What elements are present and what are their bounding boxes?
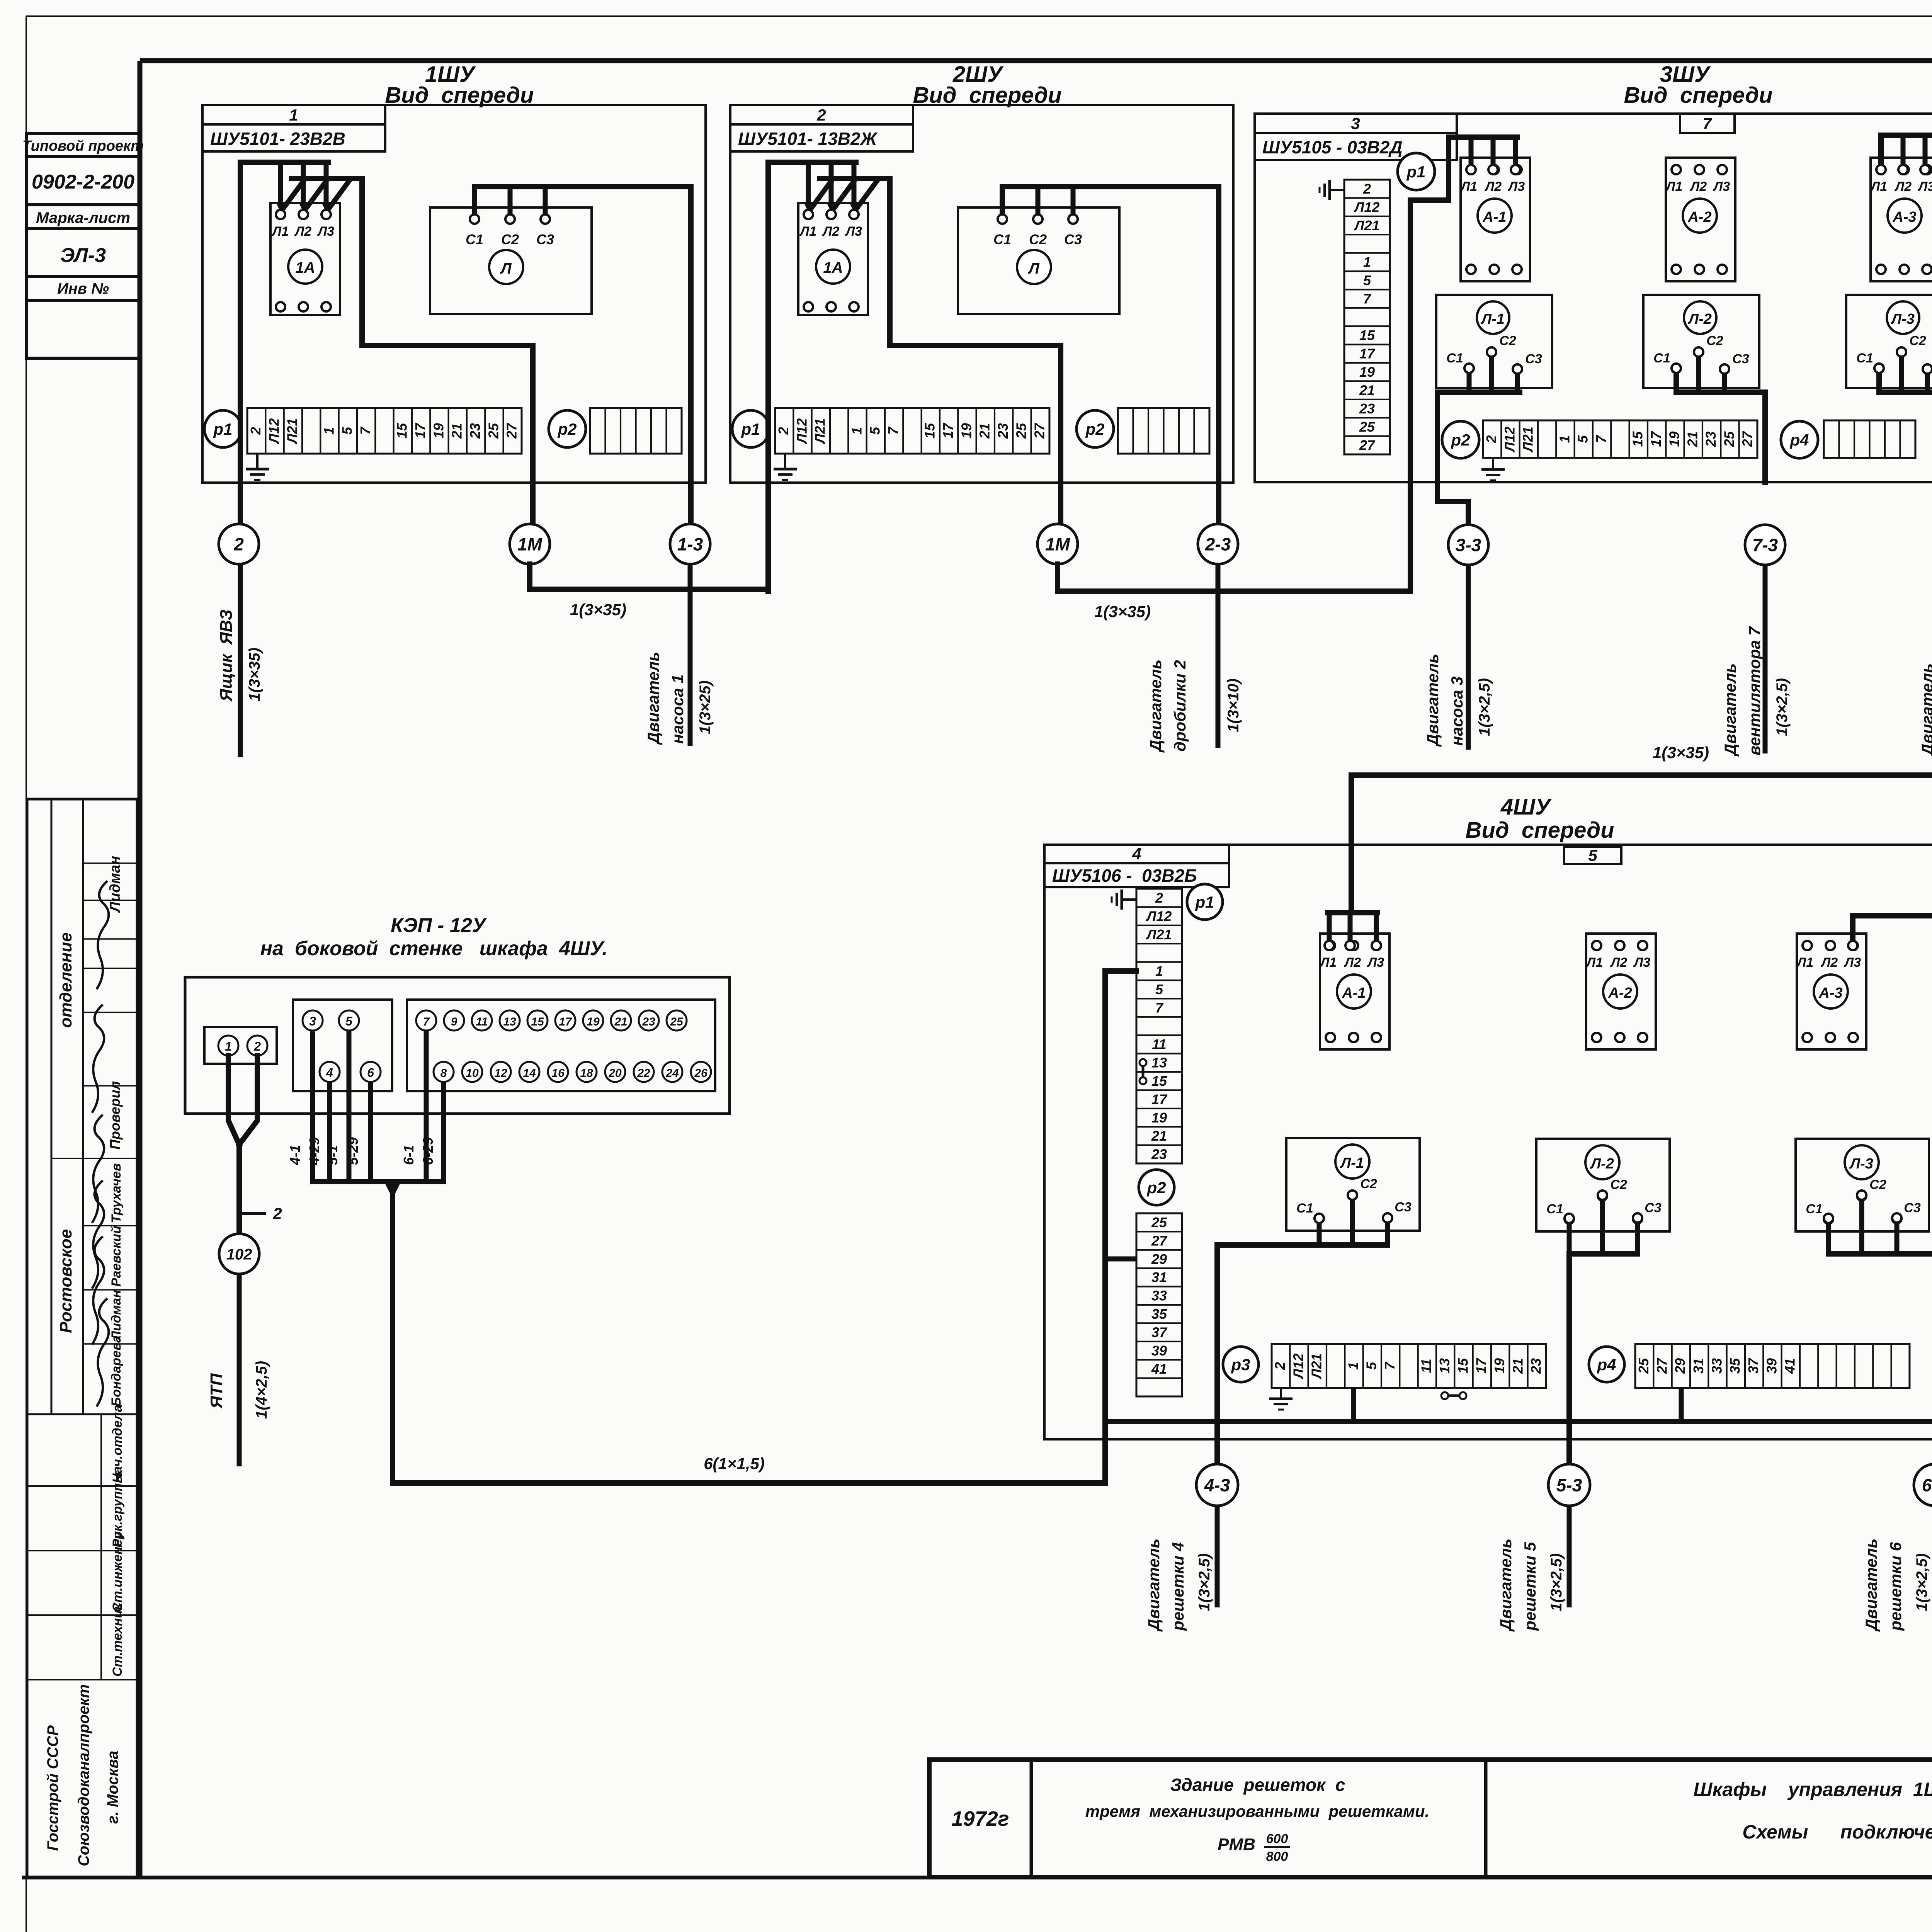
svg-text:25: 25 [485,423,501,439]
svg-text:р1: р1 [213,420,232,438]
svg-text:С2: С2 [501,231,519,247]
svg-text:С2: С2 [1360,1177,1377,1191]
wire 6(1х1,5) run to 4ШУ [384,1182,1105,1483]
svg-text:р1: р1 [1406,163,1425,181]
svg-text:15: 15 [1359,327,1375,343]
svg-text:12: 12 [494,1067,507,1080]
cabinet 2 label box [730,105,913,151]
svg-text:1: 1 [289,106,298,124]
svg-text:4-1: 4-1 [287,1145,303,1165]
svg-text:1А: 1А [823,259,843,276]
svg-text:С3: С3 [1395,1200,1412,1214]
svg-text:С3: С3 [536,231,554,247]
label Двигатель вентилятора 7 [1721,626,1764,757]
svg-text:решетки 6: решетки 6 [1886,1542,1905,1631]
svg-text:5: 5 [345,1014,353,1028]
svg-text:Л12: Л12 [1290,1354,1306,1380]
svg-text:4: 4 [1132,845,1141,863]
connection circle 1М of 1ШУ [510,524,550,564]
ground strip р1 4ШУ [1122,898,1136,901]
strip р1 4ШУ [1136,889,1182,1163]
contactor А-2 4ШУ [1586,934,1656,1049]
svg-text:Л-2: Л-2 [1687,311,1712,327]
svg-text:31: 31 [1690,1358,1706,1374]
svg-text:Вид спереди: Вид спереди [1465,818,1614,843]
svg-text:1: 1 [1363,254,1371,270]
svg-text:Нач.отдела: Нач.отдела [110,1405,125,1483]
circle р4 3ШУ [1781,421,1818,458]
cabinet 2ШУ outline [730,105,1233,483]
svg-text:13: 13 [503,1015,516,1028]
svg-text:А-1: А-1 [1482,209,1506,225]
box 7 on 3ШУ [1680,114,1735,133]
wire bus 1М to 2ШУ [530,483,768,589]
spare strip 3ШУ [1824,420,1915,458]
svg-text:ЯТП: ЯТП [207,1373,226,1409]
svg-text:Двигатель: Двигатель [1497,1539,1515,1632]
terminals redraw 4ШУ [1315,941,1901,1223]
wire left riser W1 4ШУ [1105,971,1136,1439]
circle р2 3ШУ [1442,421,1479,458]
strip р2 4ШУ [1136,1213,1182,1396]
terminal strip left of 3ШУ [1344,180,1390,454]
connection circle 4-3 [1196,1464,1238,1506]
svg-text:2: 2 [1363,181,1371,197]
svg-text:Л2: Л2 [1894,179,1912,194]
svg-text:Л12: Л12 [1354,199,1380,215]
svg-text:Проверил: Проверил [107,1081,123,1150]
svg-text:Л21: Л21 [812,418,828,445]
svg-text:7: 7 [1363,291,1372,306]
svg-text:С3: С3 [1645,1201,1662,1215]
svg-text:16: 16 [551,1067,565,1080]
svg-text:2-3: 2-3 [1205,534,1231,554]
svg-text:Л21: Л21 [1520,427,1536,453]
svg-text:1(3×35): 1(3×35) [246,648,263,701]
svg-text:35: 35 [1727,1358,1743,1374]
wire КЭП 1-2 to 102 [228,1056,257,1234]
svg-text:25: 25 [1636,1358,1651,1374]
wire Л-3 bus 4ШУ to 6-3 [1828,1200,1932,1465]
svg-text:25: 25 [1013,423,1029,439]
svg-text:Л2: Л2 [294,224,311,239]
wires КЭП 3-8 to bus [310,1031,446,1182]
svg-text:Л12: Л12 [266,418,282,445]
svg-text:2: 2 [1272,1362,1288,1370]
svg-text:Вид спереди: Вид спереди [385,83,534,108]
svg-text:102: 102 [226,1246,252,1263]
svg-text:15: 15 [1455,1358,1471,1374]
svg-text:дробилки 2: дробилки 2 [1171,660,1189,752]
svg-text:2: 2 [272,1204,282,1223]
contactor А-3 3ШУ [1871,158,1932,281]
connection circle 1-3 [670,524,710,564]
svg-text:1(3×25): 1(3×25) [697,680,714,734]
margin signatures scribbles [92,881,109,1406]
box КЭП-12У [185,977,730,1114]
svg-text:600: 600 [1266,1832,1288,1846]
svg-text:Л3: Л3 [1367,955,1384,970]
svg-text:ЭЛ-3: ЭЛ-3 [60,244,106,267]
svg-text:21: 21 [614,1015,627,1028]
svg-text:27: 27 [1654,1357,1670,1374]
svg-text:тремя механизированными реше: тремя механизированными решетками. [1085,1802,1429,1820]
svg-text:23: 23 [1703,431,1719,447]
svg-text:Здание решеток с: Здание решеток с [1170,1775,1345,1795]
svg-text:0902-2-200: 0902-2-200 [32,171,134,193]
svg-text:Марка-лист: Марка-лист [36,209,130,226]
svg-text:25: 25 [1721,431,1737,447]
svg-text:Л2: Л2 [1610,955,1627,970]
svg-text:Л: Л [1027,260,1040,277]
svg-text:33: 33 [1151,1288,1167,1304]
svg-text:Вид спереди: Вид спереди [913,83,1061,108]
wire feed bus А-1 4ШУ [1328,913,1378,942]
svg-text:1(3×2,5): 1(3×2,5) [1196,1553,1213,1611]
block Л-1 3ШУ [1436,295,1552,388]
svg-text:37: 37 [1745,1357,1761,1374]
svg-text:Раевский: Раевский [109,1226,124,1287]
svg-text:Л2: Л2 [1689,179,1707,194]
label Двигатель насоса 1 [644,652,687,745]
terminal strip of 2ШУ [775,408,1049,454]
svg-text:27: 27 [1032,422,1048,439]
block Л of 1ШУ [430,207,592,314]
svg-text:41: 41 [1151,1361,1167,1377]
ground left strip 3ШУ [1330,189,1344,191]
margin job titles [110,1405,125,1677]
svg-text:800: 800 [1266,1849,1288,1864]
label Двигатель насоса 3 [1423,654,1466,747]
contactor 1А of 2ШУ [798,203,868,315]
svg-text:С1: С1 [1806,1202,1822,1216]
svg-text:р2: р2 [1085,420,1104,438]
svg-text:20: 20 [608,1067,622,1080]
wire Л-1 bus 3ШУ [1437,355,1520,482]
svg-text:Л2: Л2 [822,224,839,239]
jumper 13-15 on р3 [1441,1392,1466,1399]
wire diagonals at 1А 2ШУ [808,179,879,212]
КЭП terminals 3-6 box [293,1000,392,1091]
strip р3 4ШУ [1272,1344,1546,1388]
spare strip of 2ШУ [1118,408,1209,454]
title block Здание решеток [1085,1775,1429,1864]
svg-text:5-1: 5-1 [325,1145,340,1165]
svg-text:Ростовское: Ростовское [56,1229,75,1333]
svg-text:7: 7 [423,1015,430,1028]
svg-text:1: 1 [225,1039,232,1053]
labels 6-1 6-29 [401,1137,436,1165]
svg-text:1(3×10): 1(3×10) [1225,679,1242,732]
box 5 on 4ШУ [1564,846,1621,864]
svg-text:6(1×1,5): 6(1×1,5) [704,1454,765,1473]
svg-text:29: 29 [1151,1251,1167,1267]
cable motor решетки 4 [1215,1506,1220,1607]
svg-text:2: 2 [776,427,791,435]
svg-text:2: 2 [233,534,244,554]
svg-text:Бондарева: Бондарева [109,1335,124,1406]
wire diagonals at 1А 1ШУ [281,179,351,212]
svg-text:А-3: А-3 [1892,209,1916,225]
block Л of 2ШУ [958,207,1119,314]
block Л-1 4ШУ [1286,1138,1420,1231]
spare strip of 1ШУ [590,408,682,454]
svg-text:А-3: А-3 [1818,985,1842,1001]
wire feed bus of 2ШУ [768,162,856,591]
cable Ящик ЯВЗ wire [238,564,243,757]
wire А-3 feed from р5 [1853,907,1932,942]
svg-text:6: 6 [367,1066,374,1080]
circle р2 4ШУ [1139,1170,1174,1205]
svg-text:7: 7 [1593,435,1609,443]
svg-text:р1: р1 [741,420,760,438]
connection circle 102 left [219,1234,259,1274]
svg-text:Л2: Л2 [1820,955,1838,970]
connection circle 7-3 [1745,525,1785,565]
wire new bus to 1А 2ШУ [820,179,1061,524]
svg-text:29: 29 [1672,1358,1688,1374]
svg-text:1(3×35): 1(3×35) [1094,602,1151,621]
terminals redraw 1ШУ [276,210,550,224]
svg-text:17: 17 [1359,346,1376,362]
svg-text:5: 5 [1588,846,1597,864]
svg-text:Л21: Л21 [1146,927,1172,942]
svg-text:Л3: Л3 [1844,955,1861,970]
svg-text:17: 17 [1473,1357,1489,1374]
svg-text:2: 2 [248,427,264,435]
svg-text:4-3: 4-3 [1204,1475,1230,1495]
svg-text:17: 17 [412,422,428,439]
svg-text:вентилятора 7: вентилятора 7 [1745,626,1764,755]
margin box Марка-лист [26,205,140,229]
connection circle 3-3 [1437,482,1488,565]
svg-text:Л-2: Л-2 [1590,1156,1614,1172]
svg-text:Л1: Л1 [1585,955,1603,970]
svg-text:1(3×2,5): 1(3×2,5) [1548,1553,1565,1611]
svg-text:Схемы подключений.: Схемы подключений. [1742,1821,1932,1843]
svg-text:С1: С1 [1296,1201,1313,1216]
svg-text:39: 39 [1151,1343,1167,1359]
contactor А-3 4ШУ [1797,934,1866,1049]
svg-text:Вид спереди: Вид спереди [1624,83,1772,108]
svg-text:1972г: 1972г [952,1807,1009,1830]
circle р3 4ШУ [1223,1347,1259,1382]
block Л-2 4ШУ [1536,1139,1670,1231]
svg-text:Союзводоканалпроект: Союзводоканалпроект [75,1684,92,1866]
connection circle 5-3 [1548,1464,1590,1506]
strip р4 4ШУ [1635,1344,1910,1388]
svg-text:Л: Л [500,260,512,277]
svg-text:19: 19 [1666,431,1682,447]
svg-text:19: 19 [958,423,974,439]
circle р1 4ШУ [1187,884,1223,920]
terminals redraw 3ШУ [1464,165,1932,374]
svg-text:14: 14 [523,1067,536,1080]
svg-text:Двигатель: Двигатель [1918,663,1932,757]
ground under р3 4ШУ [1280,1388,1282,1399]
svg-text:С2: С2 [1869,1177,1886,1192]
svg-text:Л-1: Л-1 [1480,311,1505,327]
margin box Типовой проект [22,133,144,156]
wire bottom bus 4ШУ [1105,1419,1932,1424]
svg-text:5: 5 [1155,981,1163,997]
cable to motor насоса 1 [688,564,693,746]
svg-text:А-2: А-2 [1608,985,1632,1001]
svg-text:7: 7 [357,426,373,435]
wire Л-2 bus 4ШУ to 5-3 [1569,1200,1638,1465]
svg-text:7-3: 7-3 [1752,535,1778,555]
title block frame [929,1760,1932,1877]
cabinet 4 label box [1044,845,1229,887]
svg-text:С3: С3 [1525,352,1542,366]
svg-text:р4: р4 [1597,1355,1616,1374]
wire stub р3-1 [1351,1388,1356,1422]
wire feed bus of 1ШУ [240,162,328,549]
svg-text:Л3: Л3 [1713,179,1730,194]
svg-text:21: 21 [1685,431,1701,447]
svg-text:г. Москва: г. Москва [104,1751,121,1824]
svg-text:1А: 1А [295,259,315,276]
svg-text:Л21: Л21 [1354,218,1380,233]
КЭП terminals 7-26 box [407,1000,715,1091]
svg-text:решетки 5: решетки 5 [1521,1542,1539,1631]
svg-text:Л2: Л2 [1484,179,1502,194]
cabinet 3ШУ outline [1255,114,1932,482]
svg-text:25: 25 [1359,419,1375,435]
svg-text:С3: С3 [1064,231,1082,247]
margin box Госстрой СССР Союзводоканалпроект [44,1684,121,1866]
svg-text:27: 27 [1740,431,1755,447]
svg-text:решетки 4: решетки 4 [1169,1542,1187,1631]
wire feed to 4ШУ [1351,564,1932,913]
block Л-3 4ШУ [1796,1139,1929,1231]
cabinet 1ШУ outline [202,105,706,483]
svg-text:1: 1 [321,427,337,435]
svg-text:23: 23 [1359,401,1375,417]
svg-text:Л3: Л3 [1917,179,1932,194]
svg-text:Ст.техник: Ст.техник [110,1603,125,1677]
cable to motor дробилки 2 [1216,564,1221,748]
svg-text:р3: р3 [1231,1355,1250,1374]
svg-text:Двигатель: Двигатель [1145,1539,1163,1632]
svg-text:10: 10 [466,1067,479,1080]
svg-text:27: 27 [1151,1233,1168,1248]
svg-text:7: 7 [1155,1000,1164,1015]
terminals redraw 2ШУ [804,210,1078,224]
svg-text:ШУ5101- 23В2В: ШУ5101- 23В2В [210,129,345,149]
svg-text:9: 9 [451,1015,457,1028]
connection circle 6-3 [1914,1464,1932,1506]
svg-text:Л1: Л1 [271,224,289,239]
svg-text:1: 1 [1556,435,1572,443]
svg-text:Лидман: Лидман [109,1290,124,1341]
svg-text:1-3: 1-3 [677,534,703,554]
svg-text:С1: С1 [993,231,1011,247]
svg-text:1: 1 [1155,963,1163,979]
svg-text:КЭП - 12У: КЭП - 12У [391,914,487,937]
svg-text:5-3: 5-3 [1556,1475,1582,1495]
ground under р2 strip 3ШУ [1492,458,1494,469]
svg-text:19: 19 [1151,1110,1167,1126]
svg-text:1: 1 [1345,1362,1361,1370]
svg-text:23: 23 [995,423,1011,439]
label Двигатель решетки 5 [1497,1539,1539,1632]
wire А-3 bus to 1М 3ШУ [1881,135,1932,524]
wire Л-3 bus 3ШУ [1879,355,1932,482]
cable ЯТП from КЭП [237,1274,242,1466]
ground of 2ШУ strip [784,454,786,469]
svg-text:Л2: Л2 [1344,955,1361,970]
block Л-3 3ШУ [1846,295,1932,388]
svg-text:6-3: 6-3 [1922,1475,1932,1495]
ground of 1ШУ strip [256,454,259,469]
svg-text:С3: С3 [1904,1201,1921,1215]
label Двигатель решетки 6 [1862,1539,1905,1632]
connection circle 2 [219,524,259,564]
svg-text:19: 19 [430,423,446,439]
svg-text:17: 17 [559,1015,572,1028]
svg-text:Л3: Л3 [845,224,862,239]
svg-text:35: 35 [1151,1306,1167,1322]
svg-text:15: 15 [1630,431,1646,447]
circle р2 of 1ШУ [549,410,586,447]
svg-text:25: 25 [1151,1214,1167,1230]
КЭП terminals 1-2 box [204,1027,277,1064]
svg-text:15: 15 [1151,1073,1167,1089]
svg-text:33: 33 [1709,1358,1725,1374]
svg-text:19: 19 [1492,1358,1507,1374]
svg-text:6-29: 6-29 [420,1137,436,1165]
svg-text:4: 4 [326,1066,333,1080]
svg-text:25: 25 [670,1015,684,1028]
svg-text:4ШУ: 4ШУ [1500,794,1552,820]
svg-text:отделение: отделение [56,932,75,1028]
svg-text:А-1: А-1 [1342,985,1366,1001]
svg-text:1(3×35): 1(3×35) [570,600,626,619]
svg-text:С1: С1 [1446,351,1463,366]
svg-text:1(3×35): 1(3×35) [1653,743,1709,762]
svg-text:насоса 3: насоса 3 [1448,677,1466,746]
svg-text:р2: р2 [1146,1179,1166,1197]
svg-text:ШУ5106 - 03В2Б: ШУ5106 - 03В2Б [1052,866,1197,886]
contactor А-1 4ШУ [1320,934,1389,1049]
terminal strip of 1ШУ [247,408,522,454]
svg-text:Л3: Л3 [317,224,334,239]
svg-text:1М: 1М [1045,534,1071,554]
svg-text:7: 7 [1382,1361,1398,1370]
svg-text:37: 37 [1151,1324,1168,1340]
svg-text:Трухачев: Трухачев [109,1163,124,1223]
svg-text:С2: С2 [1706,333,1723,348]
circle р4 4ШУ [1589,1347,1624,1382]
svg-text:Двигатель: Двигатель [1862,1539,1880,1632]
svg-text:С2: С2 [1029,231,1047,247]
margin empty box [26,300,140,358]
svg-text:Л1: Л1 [1665,179,1682,194]
svg-text:1: 1 [849,427,864,435]
svg-text:Л1: Л1 [1796,955,1813,970]
svg-text:Л1: Л1 [799,224,816,239]
svg-text:11: 11 [1152,1036,1166,1052]
svg-text:С1: С1 [1856,351,1873,366]
svg-text:2: 2 [253,1039,261,1053]
svg-text:1(3×2,5): 1(3×2,5) [1476,678,1493,736]
svg-text:Двигатель: Двигатель [644,652,662,745]
connection circle 2-3 [1198,524,1238,564]
jumper 13-15 on р1 [1139,1059,1146,1084]
svg-text:1(4×2,5): 1(4×2,5) [253,1361,270,1419]
svg-text:3: 3 [1351,114,1360,133]
